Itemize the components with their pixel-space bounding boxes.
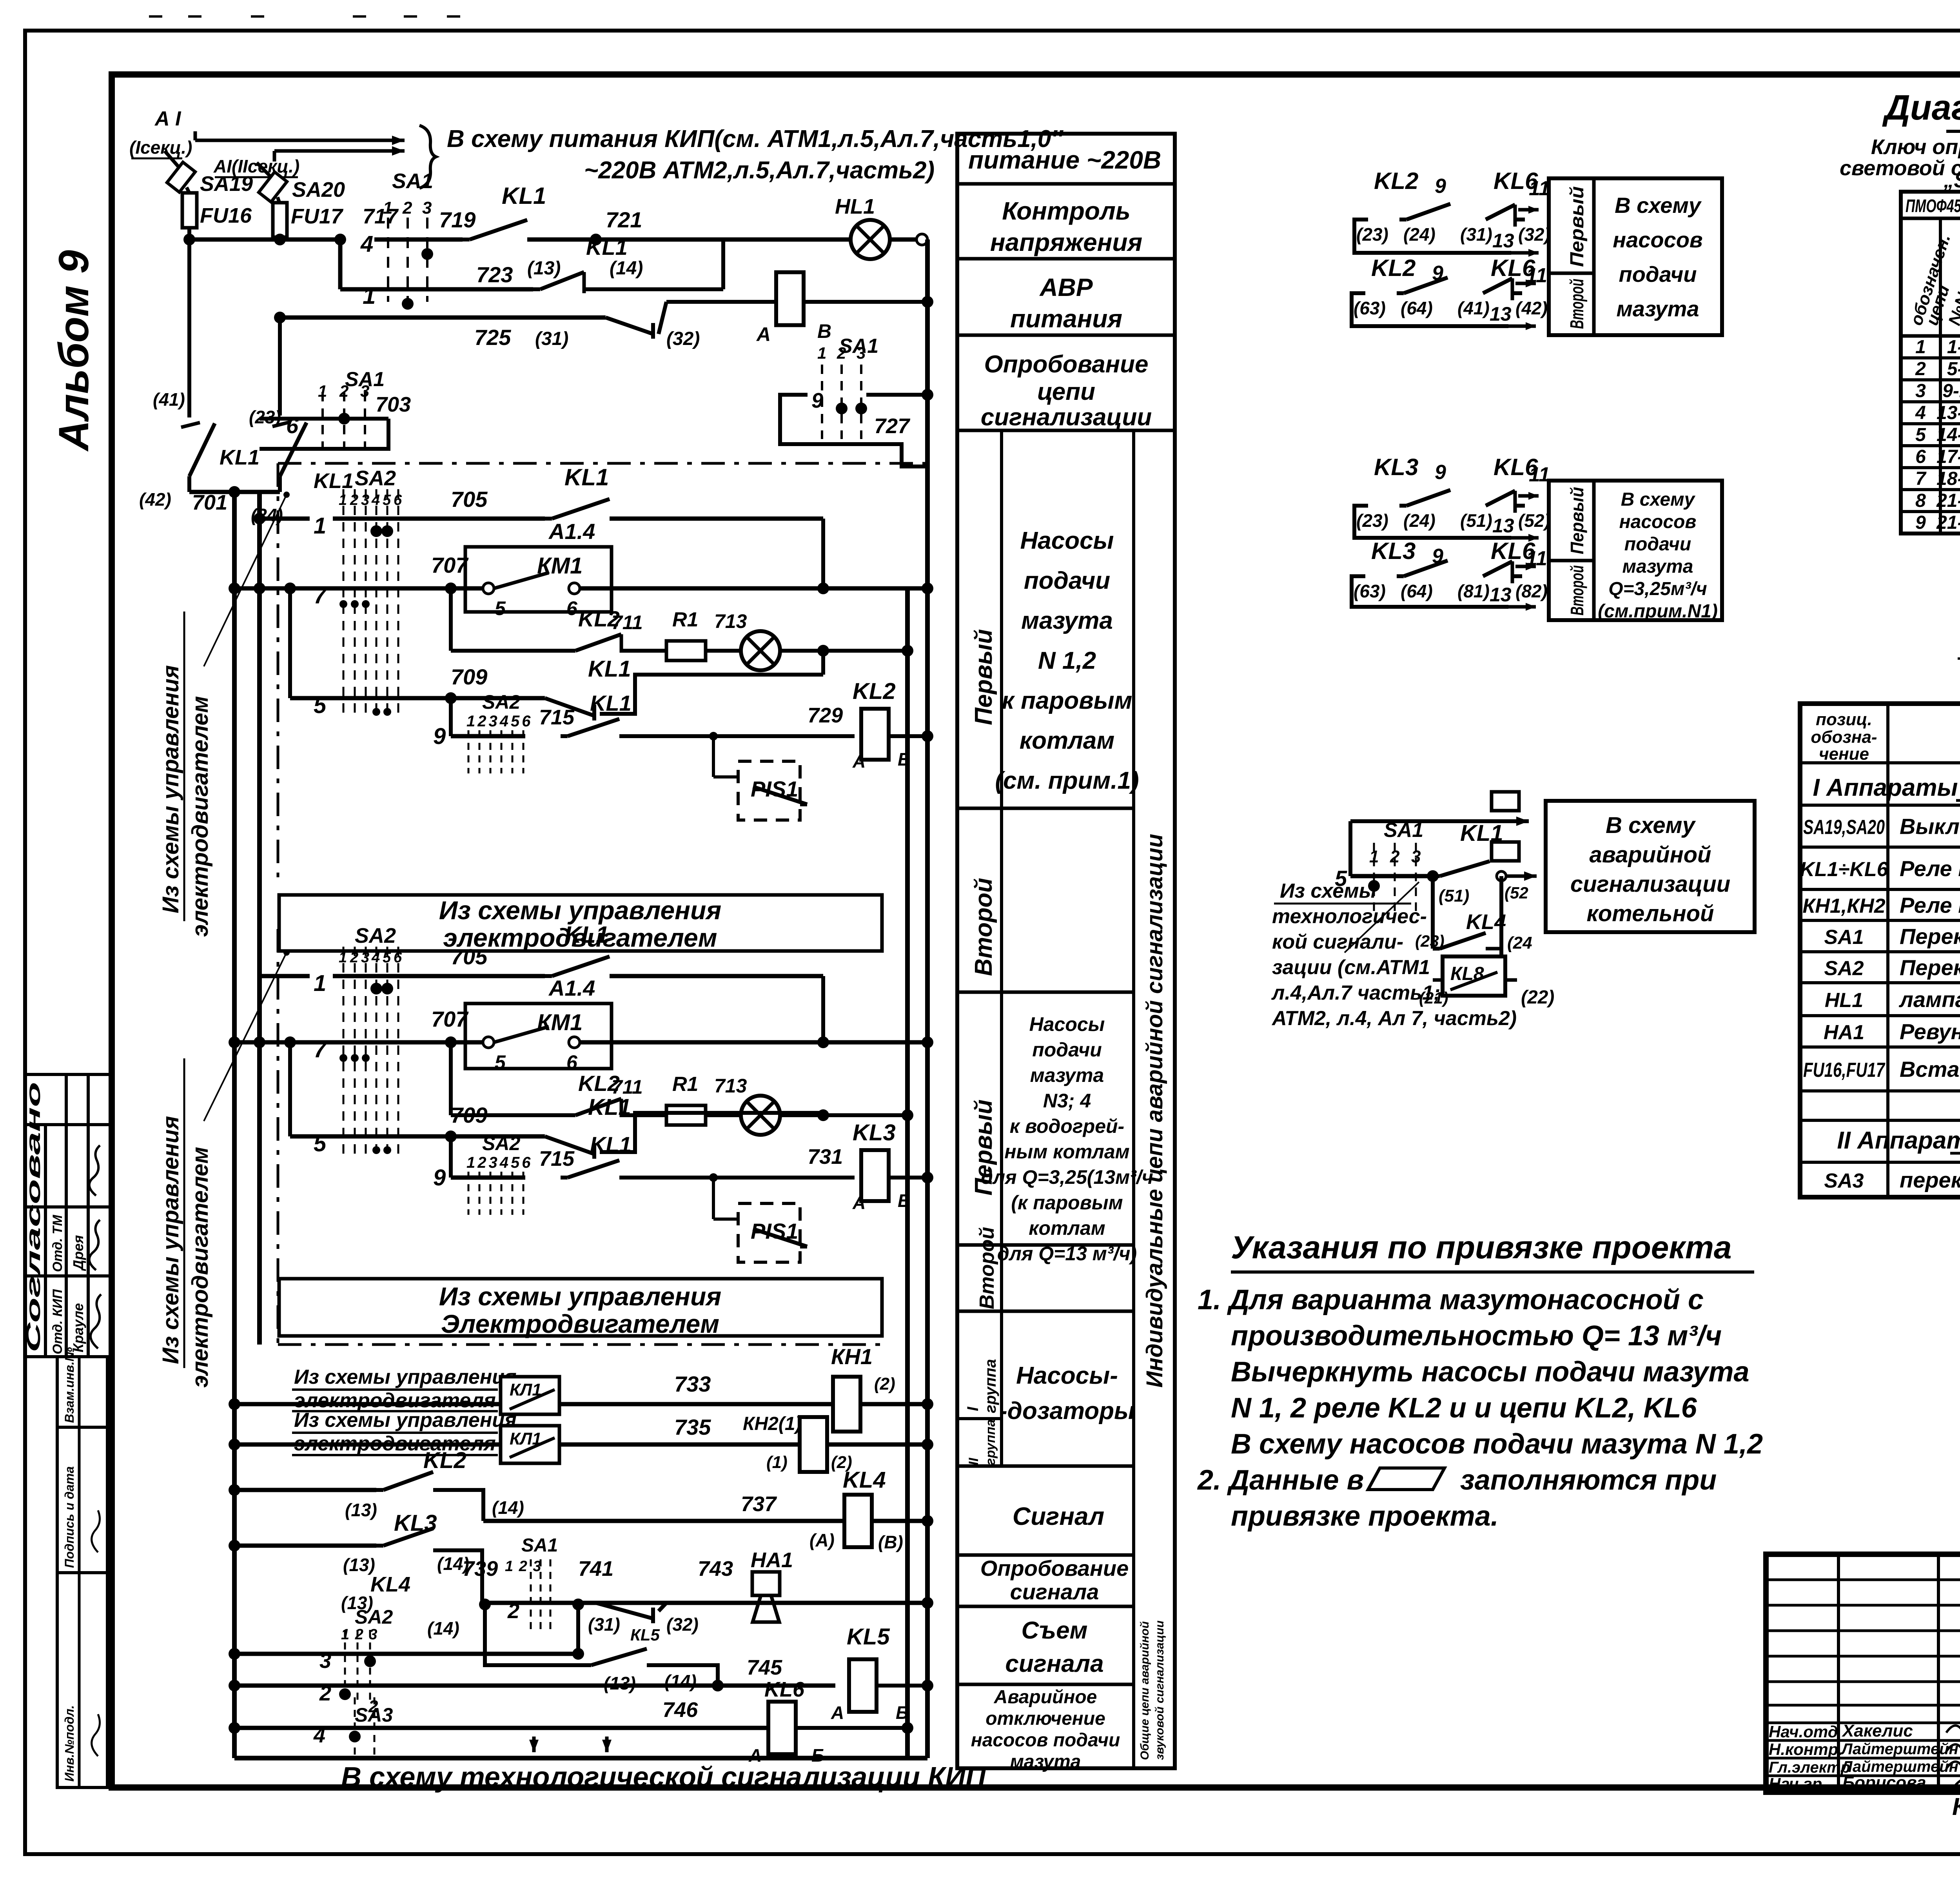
note: kontakt ne ispolzuetsya: [1958, 657, 1960, 660]
svg-text:KL6: KL6: [764, 1678, 805, 1701]
contact KL5 (13)(14) branch: [485, 1604, 584, 1665]
svg-text:Электродвигателем: Электродвигателем: [441, 1309, 719, 1338]
svg-text:А1.4: А1.4: [548, 519, 595, 544]
svg-text:(42): (42): [139, 489, 171, 510]
svg-text:1. Для варианта мазутонасосн: 1. Для варианта мазутонасосной с: [1198, 1284, 1704, 1316]
svg-text:Ревун РВП Ц: Ревун РВП Ц ~ 220 В: [1900, 1019, 1960, 1044]
svg-text:насосов: насосов: [1619, 512, 1697, 532]
svg-text:2: 2: [402, 198, 412, 218]
svg-text:(см.прим.N1): (см.прим.N1): [1598, 601, 1718, 622]
svg-text:2: 2: [350, 492, 358, 508]
svg-text:(51): (51): [1439, 886, 1469, 906]
svg-text:4: 4: [1915, 403, 1926, 423]
svg-text:к паровым: к паровым: [1002, 687, 1132, 714]
svg-text:Гл.электр: Гл.электр: [1769, 1759, 1850, 1776]
wire line 4 SA3 / 746 KL6 coil: [234, 1726, 768, 1730]
svg-text:KL3: KL3: [1371, 538, 1416, 564]
svg-text:мазута: мазута: [1622, 556, 1693, 577]
svg-text:2: 2: [837, 344, 846, 362]
svg-text:(к паровым: (к паровым: [1011, 1192, 1123, 1214]
svg-text:для Q=3,25(13м³/ч: для Q=3,25(13м³/ч: [981, 1166, 1153, 1188]
svg-text:Общие цепи аварийной: Общие цепи аварийной: [1138, 1621, 1151, 1760]
svg-text:(31): (31): [535, 328, 568, 349]
box A1.4 KM1: [465, 547, 612, 612]
svg-text:группа: группа: [982, 1359, 999, 1413]
svg-text:11: 11: [1529, 463, 1550, 486]
svg-text:13-15: 13-15: [1936, 403, 1960, 423]
svg-text:Н.контр.: Н.контр.: [1769, 1740, 1843, 1758]
second bus: [257, 492, 262, 1345]
svg-text:Крауле: Крауле: [70, 1303, 86, 1352]
svg-text:Нач.отд: Нач.отд: [1769, 1722, 1838, 1741]
svg-text:SA2: SA2: [482, 1132, 520, 1154]
svg-text:Взам.инв.№: Взам.инв.№: [62, 1347, 76, 1423]
svg-text:2: 2: [1390, 847, 1400, 866]
svg-text:1: 1: [314, 513, 326, 539]
svg-text:(63): (63): [1354, 581, 1386, 601]
svg-text:(14): (14): [610, 258, 643, 279]
svg-text:745: 745: [747, 1656, 782, 1679]
fuse FU17: [278, 197, 279, 203]
contact table ПМОФ45-111225/П-Д2: [1901, 192, 1960, 534]
label box: iz skhemy upravleniya 1: [279, 895, 882, 951]
switch SA20: [257, 163, 270, 176]
svg-text:Дрея: Дрея: [70, 1235, 86, 1271]
svg-text:насосов: насосов: [1613, 227, 1703, 252]
svg-text:725: 725: [474, 325, 511, 350]
resistor R1: [666, 641, 706, 661]
svg-text:Индивидуальные цепи аварийно: Индивидуальные цепи аварийной сигнализац…: [1142, 834, 1167, 1388]
svg-text:В схему насосов подачи маз: В схему насосов подачи мазута N 1,2: [1231, 1428, 1763, 1460]
svg-text:(81): (81): [1457, 581, 1490, 601]
svg-text:(63): (63): [1354, 298, 1386, 318]
svg-text:KL3: KL3: [1374, 454, 1418, 480]
svg-text:Насосы: Насосы: [1029, 1013, 1105, 1035]
svg-text:KL1÷KL6: KL1÷KL6: [1800, 858, 1888, 881]
contact KL2 row: [234, 1488, 376, 1492]
svg-text:Из схемы управления: Из схемы управления: [439, 1282, 721, 1311]
svg-text:733: 733: [674, 1372, 711, 1396]
svg-text:Лайтерштейн: Лайтерштейн: [1840, 1740, 1958, 1758]
svg-text:Второй: Второй: [1567, 279, 1588, 329]
svg-text:I: I: [964, 1406, 982, 1411]
svg-text:(14): (14): [492, 1497, 524, 1518]
svg-text:5: 5: [314, 1131, 327, 1156]
svg-text:SA1: SA1: [392, 169, 433, 193]
svg-text:6: 6: [1915, 446, 1926, 467]
svg-text:подачи: подачи: [1024, 567, 1110, 594]
svg-text:715: 715: [539, 706, 575, 729]
contact box KL1 row 733: [501, 1377, 559, 1414]
svg-text:Диаграммы работы контактов: Диаграммы работы контактов: [1882, 88, 1960, 127]
svg-text:(13): (13): [345, 1500, 377, 1520]
svg-text:Аварийное: Аварийное: [994, 1687, 1097, 1708]
svg-text:Опробование: Опробование: [980, 1556, 1129, 1581]
svg-text:3: 3: [360, 382, 369, 400]
svg-text:кой сигнали-: кой сигнали-: [1272, 931, 1403, 953]
svg-text:ным котлам: ным котлам: [1004, 1141, 1129, 1163]
svg-text:переключатель ПМФ 45-111777/ П: переключатель ПМФ 45-111777/ П-Д6: [1900, 1168, 1960, 1192]
svg-text:мазута: мазута: [1030, 1064, 1104, 1086]
svg-text:N 1, 2 реле KL2 и и цепи K: N 1, 2 реле KL2 и и цепи KL2, KL6: [1231, 1392, 1697, 1424]
svg-text:6: 6: [286, 413, 299, 438]
svg-text:А: А: [852, 1192, 866, 1213]
svg-text:711: 711: [612, 612, 643, 633]
svg-text:KL4: KL4: [370, 1573, 410, 1596]
svg-text:123456: 123456: [466, 1154, 533, 1171]
svg-text:Б: Б: [898, 749, 911, 769]
svg-text:KL3: KL3: [853, 1120, 896, 1145]
svg-text:1: 1: [314, 971, 326, 996]
svg-text:SA19,SA20: SA19,SA20: [1803, 816, 1885, 839]
svg-text:звуковой сигнализации: звуковой сигнализации: [1153, 1621, 1166, 1760]
svg-text:5: 5: [383, 492, 391, 508]
svg-text:13: 13: [1492, 230, 1514, 252]
wire line 9 (715) section KL2: [449, 698, 453, 736]
svg-text:Первый: Первый: [1567, 487, 1587, 554]
svg-text:HL1: HL1: [1825, 989, 1863, 1012]
svg-text:питания: питания: [1010, 305, 1122, 333]
svg-text:сигнала: сигнала: [1010, 1579, 1099, 1604]
svg-text:Указания по привязке прое: Указания по привязке проекта: [1231, 1230, 1732, 1265]
svg-text:Инв.№подл.: Инв.№подл.: [62, 1705, 76, 1782]
svg-text:KL1: KL1: [564, 464, 609, 490]
svg-text:8: 8: [1915, 490, 1926, 511]
wire to coil KL1: [666, 300, 777, 304]
svg-text:721: 721: [606, 207, 642, 232]
svg-text:отключение: отключение: [985, 1708, 1105, 1729]
svg-text:Реле РПУ-2: Реле РПУ-2: [1900, 856, 1960, 881]
svg-text:II: II: [966, 1457, 981, 1465]
svg-text:привязке проекта.: привязке проекта.: [1231, 1501, 1499, 1532]
svg-text:котлам: котлам: [1029, 1217, 1105, 1239]
svg-text:4: 4: [313, 1724, 325, 1747]
svg-text:(В): (В): [878, 1532, 903, 1552]
svg-text:KL2: KL2: [1371, 255, 1416, 281]
svg-text:л.4,Ал.7 часть1;: л.4,Ал.7 часть1;: [1271, 982, 1440, 1004]
wire 711 KL2 contact: [449, 1042, 453, 1115]
svg-text:SA2: SA2: [355, 1606, 393, 1628]
svg-text:1: 1: [339, 492, 347, 508]
svg-text:2: 2: [339, 382, 348, 400]
fragment 1 destination box: [1549, 178, 1722, 335]
svg-text:2: 2: [507, 1599, 519, 1623]
contact KL3 row: [234, 1544, 376, 1548]
svg-text:котельной: котельной: [1586, 901, 1714, 926]
lamp HL1 row: [741, 631, 780, 670]
contact box KL1 row 735: [501, 1426, 559, 1463]
svg-text:Второй: Второй: [970, 878, 997, 976]
svg-text:Подпись и дата: Подпись и дата: [62, 1466, 76, 1568]
svg-text:18-20: 18-20: [1936, 468, 1960, 489]
svg-text:KL2: KL2: [853, 679, 896, 704]
svg-text:Из схемы управления: Из схемы управления: [294, 1409, 517, 1432]
wire line 733 KH1: [234, 1402, 927, 1406]
svg-text:(82): (82): [1515, 581, 1548, 601]
svg-text:R1: R1: [672, 1073, 698, 1096]
lamp HL1 row: [741, 1096, 780, 1135]
svg-text:1: 1: [363, 283, 376, 309]
wire line 725 with contact KL1 (31)(32): [280, 316, 606, 320]
svg-text:735: 735: [674, 1415, 711, 1439]
wire 711 KL2 contact: [449, 588, 453, 651]
svg-text:705: 705: [451, 944, 488, 969]
wire line 2 / 745 KL5 coil: [234, 1684, 835, 1688]
svg-text:Отд. ТМ: Отд. ТМ: [50, 1215, 65, 1272]
svg-text:7: 7: [1915, 468, 1927, 489]
svg-text:(31): (31): [588, 1614, 620, 1635]
pressure switch PIS1: [738, 1203, 800, 1262]
svg-text:SA1: SA1: [1384, 819, 1423, 842]
svg-text:технологичес-: технологичес-: [1272, 905, 1427, 928]
node 701 junction: [189, 490, 280, 494]
svg-text:Второй: Второй: [1567, 565, 1587, 615]
svg-text:обозна-: обозна-: [1811, 728, 1877, 747]
svg-text:1 2 3: 1 2 3: [505, 1558, 542, 1575]
svg-text:Выключатель ПВ1-10: Выключатель ПВ1-10: [1900, 814, 1960, 839]
relay coil KL2: [861, 709, 889, 760]
svg-text:723: 723: [476, 262, 513, 287]
svg-text:4: 4: [360, 231, 373, 257]
svg-text:739: 739: [463, 1557, 498, 1581]
svg-text:мазута: мазута: [1021, 607, 1113, 634]
svg-text:насосов подачи: насосов подачи: [971, 1730, 1120, 1751]
svg-text:6: 6: [394, 949, 402, 966]
svg-text:Опробование: Опробование: [984, 351, 1148, 378]
svg-text:SA2: SA2: [1824, 957, 1864, 980]
svg-text:мазута: мазута: [1616, 296, 1699, 321]
svg-text:SA20: SA20: [292, 178, 345, 201]
svg-text:Сигнал: Сигнал: [1013, 1502, 1104, 1530]
svg-text:(32): (32): [1518, 224, 1550, 245]
left stamp strip (Inv No / Podpis): [57, 1357, 107, 1787]
svg-text:КН1: КН1: [831, 1344, 873, 1369]
svg-text:1: 1: [1369, 847, 1379, 866]
svg-text:(41): (41): [153, 389, 185, 410]
svg-text:световой сигнализации: световой сигнализации: [1840, 156, 1960, 180]
svg-text:Q=3,25м³/ч: Q=3,25м³/ч: [1608, 579, 1707, 599]
wire line 739-741-743: [482, 1601, 927, 1605]
relay coil KL1: [776, 272, 804, 325]
svg-text:KL1: KL1: [220, 446, 260, 469]
svg-text:(13): (13): [527, 258, 561, 279]
svg-text:1: 1: [318, 382, 327, 400]
svg-text:KL1: KL1: [590, 1132, 632, 1157]
svg-text:KL1: KL1: [588, 1094, 631, 1120]
feed arrows to KIP supply: [195, 139, 405, 142]
svg-text:Из схемы управления: Из схемы управления: [294, 1366, 517, 1388]
svg-text:II Аппараты на щите КИП: II Аппараты на щите КИП котельной: [1837, 1127, 1960, 1154]
svg-text:727: 727: [874, 414, 911, 438]
fragment 2 destination box: [1549, 481, 1722, 620]
svg-text:(14): (14): [664, 1671, 697, 1691]
left stamp table (Soglasovano): [25, 1074, 112, 1357]
svg-text:5: 5: [1915, 425, 1926, 445]
svg-text:KL3: KL3: [394, 1510, 437, 1536]
svg-text:Первый: Первый: [1567, 186, 1588, 267]
signature squiggles stamp: [89, 1145, 100, 1196]
svg-text:KL1: KL1: [564, 922, 609, 948]
svg-text:(51): (51): [1460, 510, 1492, 531]
leader to SA2 section2: [204, 953, 287, 1121]
svg-text:А: А: [852, 751, 866, 771]
svg-text:2. Данные в: 2. Данные в: [1197, 1464, 1364, 1496]
fuse FU16: [187, 187, 189, 193]
svg-text:зации (см.АТМ1: зации (см.АТМ1: [1272, 956, 1430, 979]
svg-text:(42): (42): [1515, 298, 1548, 318]
svg-text:КН1,КН2: КН1,КН2: [1802, 895, 1885, 918]
svg-text:электродвигателем: электродвигателем: [187, 696, 213, 937]
svg-text:SA2: SA2: [482, 691, 520, 713]
svg-text:Переключатель ПМОФ45-111225/П-: Переключатель ПМОФ45-111225/П-Д2: [1900, 924, 1960, 949]
resistor R1: [666, 1105, 706, 1125]
svg-text:Насосы: Насосы: [1020, 527, 1114, 554]
svg-text:FU16,FU17: FU16,FU17: [1803, 1059, 1886, 1082]
svg-text:Из схемы: Из схемы: [1280, 880, 1376, 902]
svg-text:А I: А I: [154, 107, 181, 130]
svg-text:(Iсекц.): (Iсекц.): [129, 137, 192, 158]
svg-text:3: 3: [361, 949, 369, 966]
svg-text:701: 701: [192, 491, 227, 514]
svg-text:737: 737: [741, 1492, 777, 1516]
svg-text:(64): (64): [1401, 298, 1433, 318]
svg-text:(2): (2): [874, 1374, 895, 1394]
svg-text:КМ1: КМ1: [537, 1010, 583, 1035]
svg-text:АВР: АВР: [1039, 273, 1093, 301]
wire line 5 (709) section KL3: [288, 1042, 292, 1136]
contact KM1 5-6: [483, 1037, 494, 1048]
svg-text:123456: 123456: [466, 713, 533, 730]
svg-text:(32): (32): [666, 328, 700, 349]
svg-text:SA3: SA3: [1824, 1170, 1864, 1192]
svg-text:743: 743: [698, 1557, 733, 1581]
sections dash-dot borders: [277, 463, 279, 882]
svg-text:717: 717: [363, 205, 399, 228]
svg-text:Из схемы управления: Из схемы управления: [158, 1116, 183, 1364]
svg-text:741: 741: [578, 1557, 613, 1581]
svg-text:питание ~220В: питание ~220В: [968, 146, 1161, 174]
svg-text:6: 6: [394, 492, 402, 508]
wire line 1 (705) section KL3: [260, 974, 310, 978]
svg-text:Нач.гр.: Нач.гр.: [1769, 1775, 1827, 1793]
wire line 3 SA2: [234, 1652, 578, 1656]
svg-text:Б: Б: [896, 1702, 909, 1723]
svg-text:сигнализации: сигнализации: [981, 404, 1152, 431]
svg-text:9: 9: [433, 1165, 446, 1190]
svg-text:(см. прим.1): (см. прим.1): [995, 767, 1139, 794]
svg-text:713: 713: [714, 1075, 747, 1097]
parts table: [1800, 704, 1960, 1197]
svg-text:709: 709: [451, 1103, 487, 1127]
wire line 735 KH2: [234, 1443, 927, 1447]
svg-text:705: 705: [451, 487, 488, 512]
relay coil KL3: [861, 1150, 889, 1201]
svg-text:КL5: КL5: [630, 1626, 660, 1644]
svg-text:9: 9: [1915, 512, 1926, 533]
svg-text:КL8: КL8: [1450, 964, 1484, 984]
wire line 1 (723): [338, 240, 343, 289]
svg-text:3: 3: [857, 344, 866, 362]
function table middle columns: [1000, 430, 1003, 1466]
svg-text:Переключатель ПМОВ 222222 /П-Д: Переключатель ПМОВ 222222 /П-Д61: [1900, 955, 1960, 980]
svg-text:729: 729: [808, 704, 843, 727]
svg-text:SA1: SA1: [521, 1535, 558, 1556]
svg-text:SA2: SA2: [355, 924, 396, 947]
svg-text:Контроль: Контроль: [1002, 197, 1131, 225]
bottom bus: [234, 1756, 927, 1760]
svg-text:7: 7: [314, 1037, 327, 1062]
svg-text:KL1: KL1: [588, 656, 631, 682]
svg-text:электродвигателем: электродвигателем: [187, 1147, 213, 1388]
svg-text:Альбом 9: Альбом 9: [50, 250, 97, 452]
svg-text:(22): (22): [1521, 987, 1554, 1008]
svg-text:7: 7: [314, 583, 327, 608]
svg-text:5: 5: [495, 1051, 506, 1073]
svg-text:Копировал К-ч_24963-11 10 Ф: Копировал К-ч_24963-11 10 Формат А2: [1952, 1793, 1960, 1820]
svg-text:Б: Б: [898, 1190, 911, 1211]
svg-text:4: 4: [371, 492, 380, 508]
box A1.4 KM1: [465, 1004, 612, 1069]
function table frame: [957, 134, 1175, 1768]
title block signatures table: [1837, 1554, 1840, 1792]
svg-text:(41): (41): [1457, 298, 1490, 318]
svg-text:Борисова: Борисова: [1842, 1773, 1926, 1792]
brace: [419, 125, 436, 188]
svg-text:11: 11: [1529, 177, 1550, 200]
left bus: [232, 492, 237, 1758]
svg-text:9: 9: [433, 724, 446, 749]
svg-text:Насосы-: Насосы-: [1016, 1362, 1118, 1389]
svg-text:к водогрей-: к водогрей-: [1010, 1115, 1124, 1137]
svg-text:2: 2: [368, 1697, 378, 1716]
svg-text:1-3: 1-3: [1947, 337, 1960, 357]
wire line 7 (707) section KL2: [234, 586, 483, 591]
svg-text:лампа сигнальная АС-220 Ц~220: лампа сигнальная АС-220 Ц~220В: [1898, 987, 1960, 1012]
svg-text:13: 13: [1492, 515, 1514, 537]
svg-text:А1.4: А1.4: [548, 976, 595, 1000]
svg-text:(14): (14): [427, 1618, 459, 1639]
svg-text:позиц.: позиц.: [1816, 710, 1872, 729]
svg-text:Отд. КИП: Отд. КИП: [50, 1289, 65, 1354]
svg-text:6: 6: [566, 1051, 578, 1073]
svg-text:В схему: В схему: [1621, 489, 1696, 510]
svg-text:2: 2: [319, 1682, 331, 1705]
svg-text:(23): (23): [1356, 224, 1388, 245]
right bus B: [925, 240, 930, 1758]
svg-text:FU17: FU17: [291, 205, 344, 228]
top margin tick marks: [149, 15, 162, 18]
svg-text:HL1: HL1: [835, 195, 875, 218]
svg-text:(1): (1): [766, 1453, 788, 1472]
svg-text:707: 707: [431, 553, 469, 577]
svg-text:SA19: SA19: [200, 172, 253, 196]
fragment 3: emergency signal to boiler room: [1492, 792, 1519, 811]
svg-text:сигнала: сигнала: [1005, 1650, 1103, 1677]
svg-text:13: 13: [1490, 303, 1512, 325]
svg-text:746: 746: [662, 1698, 698, 1722]
svg-text:А: А: [756, 323, 771, 345]
wire line 737 KL4 coil: [483, 1519, 927, 1523]
svg-text:(13): (13): [343, 1555, 375, 1575]
svg-text:чение: чение: [1819, 744, 1869, 764]
svg-text:А: А: [831, 1702, 844, 1723]
title block frame: [1766, 1554, 1960, 1792]
wire line 4 (717-719-721): [189, 238, 340, 242]
svg-text:13: 13: [1490, 584, 1512, 606]
svg-text:(31): (31): [1460, 224, 1492, 245]
pressure switch PIS1: [738, 761, 800, 820]
svg-text:„SA1”: „SA1”: [1943, 169, 1960, 192]
